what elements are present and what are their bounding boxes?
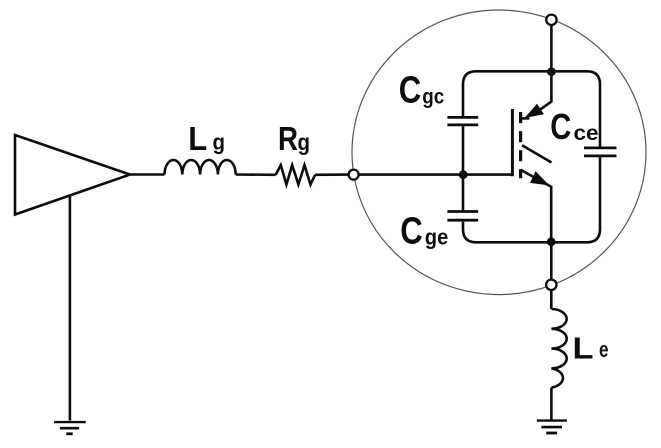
svg-text:C: C xyxy=(550,106,571,147)
svg-text:gc: gc xyxy=(422,85,444,108)
svg-text:L: L xyxy=(188,120,207,157)
svg-text:g: g xyxy=(298,129,311,155)
svg-text:e: e xyxy=(599,337,609,362)
svg-text:L: L xyxy=(573,330,594,365)
svg-text:ce: ce xyxy=(574,122,599,145)
svg-text:R: R xyxy=(278,120,298,157)
svg-text:C: C xyxy=(399,69,422,111)
svg-text:C: C xyxy=(400,210,423,252)
svg-text:g: g xyxy=(213,130,226,155)
svg-text:ge: ge xyxy=(425,224,449,249)
